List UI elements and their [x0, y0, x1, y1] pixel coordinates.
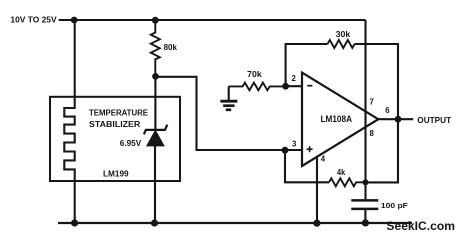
node: ground rail / zener anode [151, 219, 158, 226]
svg-text:3: 3 [292, 140, 297, 149]
node: ground rail / capacitor [362, 219, 369, 226]
ground symbol at 70k resistor [220, 86, 237, 110]
svg-text:8: 8 [370, 129, 375, 138]
wire: feedback riser from pin2 node [286, 44, 328, 86]
svg-text:OUTPUT: OUTPUT [417, 115, 451, 125]
wire: output down to compensation node [366, 119, 399, 182]
resistor R3 70k (horizontal zigzag) [229, 83, 286, 91]
svg-text:6.95V: 6.95V [120, 138, 142, 148]
node: junction top rail / heater supply [71, 17, 78, 24]
wire: ground rail [58, 222, 412, 224]
svg-text:7: 7 [370, 98, 374, 107]
svg-text:100 pF: 100 pF [381, 201, 409, 210]
svg-text:STABILIZER: STABILIZER [89, 119, 141, 129]
wire: to inverting input pin 2 [286, 85, 302, 87]
node: junction 4k / compensation cap / pin8 / output feedback [363, 179, 369, 185]
zener diode D1 cathode bar with bent tails [144, 125, 167, 135]
capacitor C1 bottom lead to ground rail [364, 210, 366, 223]
capacitor C1 100pF plates [351, 200, 378, 209]
resistor R2 30k (horizontal zigzag) [328, 40, 355, 48]
svg-text:4: 4 [321, 154, 326, 163]
LM199 package box [50, 97, 180, 181]
node: junction 70k / feedback / pin2 [282, 83, 289, 90]
heater element of LM199 (crenellated meander, 4 teeth) [64, 97, 74, 181]
capacitor C1 100pF top lead [364, 182, 366, 199]
svg-text:6: 6 [385, 106, 390, 115]
zener diode D1 anode triangle (filled) [147, 130, 164, 146]
svg-text:2: 2 [292, 74, 297, 83]
svg-text:LM199: LM199 [103, 168, 129, 178]
resistor R1 80k (vertical zigzag) [151, 20, 160, 76]
op-amp U1 LM108A triangle [302, 73, 378, 166]
svg-text:80k: 80k [164, 42, 178, 52]
svg-text:4k: 4k [337, 167, 345, 177]
wire: pin3 node down to 4k resistor line [285, 150, 329, 182]
wire: zener cathode feed into LM199 package [154, 76, 156, 129]
svg-text:10V TO 25V: 10V TO 25V [10, 14, 57, 24]
node: output junction [395, 116, 402, 123]
wire: V+ vertical drop through op-amp pins 7/8 to compensation node [364, 20, 366, 182]
wire: heater to ground rail [74, 181, 76, 223]
svg-text:30k: 30k [336, 29, 351, 39]
node: junction pin3 input / 4k branch [282, 147, 289, 154]
wire: V+ top rail [59, 19, 366, 21]
wire: op-amp output lead [378, 118, 413, 120]
op-amp inverting input minus sign [307, 85, 312, 87]
op-amp non-inverting input plus sign [307, 146, 313, 152]
node: junction 80k / zener / feed to pin3 [152, 73, 159, 80]
svg-text:LM108A: LM108A [321, 114, 353, 124]
wire: op-amp pin 4 to ground rail [316, 156, 318, 223]
wire: 30k to output drop [355, 44, 398, 119]
node: ground rail / pin4 [313, 220, 320, 227]
svg-text:70k: 70k [247, 69, 262, 79]
node: junction top rail / 80k resistor [152, 17, 159, 24]
wire: zener anode to ground rail [154, 146, 156, 223]
svg-text:TEMPERATURE: TEMPERATURE [89, 107, 148, 117]
resistor R4 4k (horizontal zigzag) [329, 178, 366, 186]
node: ground rail / heater [71, 219, 78, 226]
svg-text:SeekIC.com: SeekIC.com [386, 219, 455, 233]
wire: 80k node to non-inverting input (L path) [155, 77, 302, 150]
wire: supply drop to LM199 heater [74, 20, 76, 97]
